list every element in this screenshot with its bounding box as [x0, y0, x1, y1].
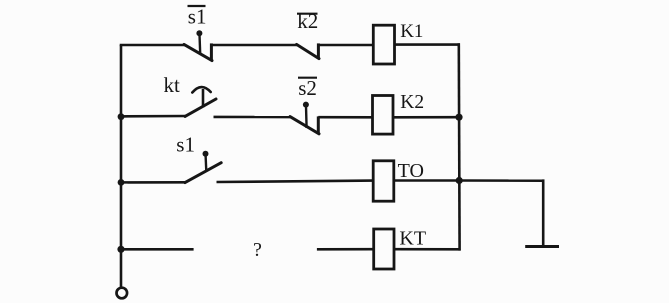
- pushbutton NC contact s2 (row 2): [290, 102, 319, 134]
- label K2: [400, 92, 424, 113]
- terminal circle at bottom of left rail: [117, 288, 128, 299]
- node junction left rail row2: [118, 113, 125, 120]
- svg-text:K1: K1: [400, 21, 423, 42]
- pushbutton NO contact s1 (row 3): [185, 151, 221, 183]
- wire from right rail junction to ground drop: [459, 179, 543, 182]
- svg-text:s1: s1: [188, 5, 207, 29]
- coil K1: [373, 25, 394, 64]
- label kt: [164, 73, 181, 97]
- wire row2 from s2 to coil K2: [318, 116, 372, 119]
- svg-text:KT: KT: [399, 227, 426, 249]
- wire row3 from left rail to s1 contact: [120, 181, 186, 184]
- wire ground drop vertical: [542, 179, 545, 246]
- wire row2 from left rail to kt contact: [120, 115, 186, 118]
- label k2 (with overline): [297, 9, 318, 33]
- wire row1 from coil K1 to right rail: [395, 43, 461, 46]
- coil K2: [373, 96, 394, 135]
- unknown element placeholder ?: [253, 239, 262, 261]
- node junction left rail row4: [117, 246, 124, 253]
- ground: [525, 245, 559, 248]
- pushbutton NC contact s1 (row 1): [184, 30, 212, 61]
- node junction left rail row3: [118, 179, 125, 186]
- coil TO: [373, 161, 394, 201]
- label TO: [398, 160, 424, 182]
- svg-text:TO: TO: [398, 160, 424, 182]
- wire row1 from k2 to coil K1: [318, 44, 373, 47]
- relay NC contact k2 (row 1): [297, 43, 320, 59]
- svg-text:kt: kt: [164, 73, 181, 97]
- svg-text:s2: s2: [298, 76, 317, 100]
- node junction right rail row2: [455, 114, 462, 121]
- wire row1 between s1 and k2 contacts: [211, 44, 297, 47]
- label s2 (with overline): [298, 76, 317, 100]
- svg-text:K2: K2: [400, 92, 424, 113]
- svg-text:?: ?: [253, 239, 262, 261]
- wire left rail: [120, 45, 123, 287]
- wire row4 into coil KT (open start): [317, 248, 374, 251]
- wire row3 from s1 contact to coil TO: [217, 181, 374, 182]
- label s1 (with overline): [188, 5, 207, 29]
- label K1: [400, 21, 423, 42]
- wire row2 from coil K2 to right rail: [393, 116, 459, 119]
- label KT: [399, 227, 426, 249]
- coil KT: [374, 229, 394, 269]
- wire row4 from coil KT to right rail: [394, 248, 460, 251]
- label s1 (row 3): [176, 133, 195, 157]
- svg-text:s1: s1: [176, 133, 195, 157]
- time-delay NO contact kt (row 2): [185, 87, 216, 116]
- node junction right rail row3: [456, 177, 463, 184]
- wire row3 from coil TO to right rail: [394, 179, 459, 182]
- wire top row from left rail to s1 contact: [120, 44, 185, 47]
- wire row4 from left rail (open end): [120, 248, 194, 251]
- wire right rail: [457, 43, 460, 250]
- wire row2 between kt and s2 contacts: [214, 116, 292, 119]
